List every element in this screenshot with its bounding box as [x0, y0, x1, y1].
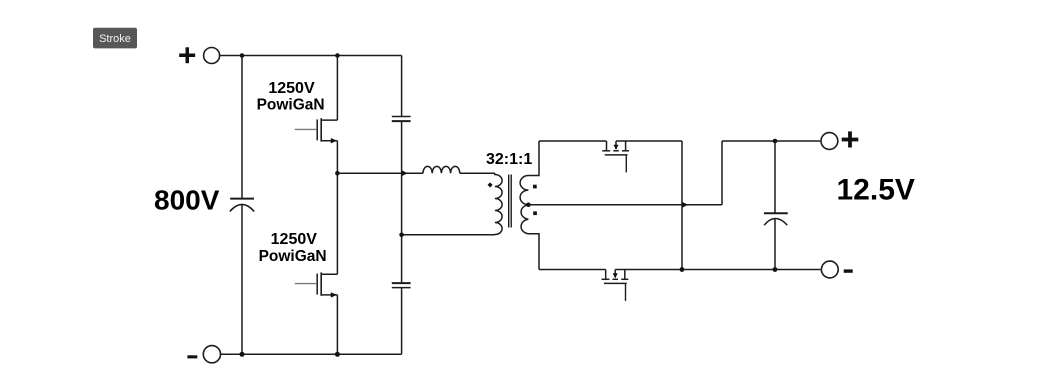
- transistor Q4 (sync rectifier, bottom): [602, 270, 629, 301]
- svg-text:1250V: 1250V: [268, 80, 315, 97]
- node: half-bridge midpoint: [335, 171, 340, 176]
- node: rectifier leg / bottom rail junction: [680, 267, 685, 272]
- node: output cap / bottom rail junction: [773, 267, 778, 272]
- svg-text:Stroke: Stroke: [99, 33, 131, 45]
- wire secondary top rail (right of Q3): [616, 140, 682, 142]
- transformer T1 primary phase dot: [488, 182, 493, 187]
- node: top rail / Q1 drain junction: [335, 53, 340, 58]
- node: top rail / left branch junction: [240, 53, 245, 58]
- wire secondary bottom rail (left of Q4): [539, 269, 606, 271]
- wire output top rail: [722, 140, 820, 142]
- wire left vertical upper (to C-in): [241, 56, 243, 199]
- transformer T1 secondary windings (center tapped): [520, 141, 539, 270]
- wire output cap upper lead: [774, 141, 776, 213]
- arrow at rectifier-leg crossing: [682, 202, 688, 208]
- input - terminal circle: [203, 346, 220, 363]
- node: bottom rail / left branch junction: [240, 352, 245, 357]
- transformer T1 primary winding: [495, 173, 502, 235]
- wire Q1 drain to top rail: [336, 56, 338, 121]
- wire primary bottom return to divider midpoint: [402, 234, 495, 236]
- transistor Q2 (GaN FET, low side): [295, 272, 338, 297]
- arrow at divider crossing (current direction): [402, 170, 408, 176]
- wire right divider branch: top rail to C1: [401, 56, 403, 117]
- node: bottom rail / Q2 source junction: [335, 352, 340, 357]
- svg-text:12.5V: 12.5V: [837, 174, 915, 207]
- transformer T1 core: [509, 175, 512, 228]
- svg-text:PowiGaN: PowiGaN: [257, 97, 325, 114]
- wire divider bottom: C2 to bottom rail: [401, 288, 403, 354]
- capacitor C1 (divider top): [392, 117, 411, 122]
- node: output cap / top rail junction: [773, 139, 778, 144]
- transformer T1 secondary phase dot (top): [533, 185, 537, 189]
- svg-text:1250V: 1250V: [271, 231, 318, 248]
- wire center tap riser: [721, 141, 723, 205]
- wire inductor to transformer primary: [460, 172, 495, 174]
- wire bottom rail: [221, 353, 402, 355]
- input minus sign: [187, 355, 197, 358]
- input plus sign: [179, 47, 195, 63]
- output plus sign: [842, 131, 859, 147]
- UI tooltip chip "Stroke": [93, 28, 137, 49]
- capacitor C2 (divider bottom): [392, 283, 411, 288]
- wire center tap to output: [528, 204, 722, 206]
- wire divider mid vertical C1 to C2: [401, 122, 403, 283]
- svg-text:800V: 800V: [154, 185, 220, 216]
- transistor Q1 (GaN FET, high side): [295, 118, 338, 143]
- wire rectifier leg vertical: [681, 141, 683, 270]
- input + terminal circle: [204, 48, 220, 64]
- transistor Q3 (sync rectifier, top): [602, 141, 629, 172]
- node: secondary center tap: [526, 203, 531, 208]
- wire half-bridge midpoint to inductor: [337, 172, 423, 174]
- capacitor C-in 800V (polarized): [230, 199, 254, 212]
- wire output cap lower lead: [774, 219, 776, 270]
- output - terminal circle: [821, 261, 838, 278]
- svg-text:32:1:1: 32:1:1: [486, 151, 532, 168]
- wire secondary bottom rail (right of Q4): [615, 269, 820, 271]
- wire Q1 source to Q2 drain (half-bridge leg): [336, 141, 338, 275]
- wire top rail: [220, 55, 402, 57]
- output minus sign: [844, 269, 853, 272]
- node: primary return / divider junction: [399, 233, 404, 238]
- svg-text:PowiGaN: PowiGaN: [259, 248, 327, 265]
- wire Q2 source to bottom rail: [336, 295, 338, 354]
- wire secondary top rail (left of Q3): [539, 140, 607, 142]
- output + terminal circle: [821, 133, 838, 150]
- capacitor C-out (polarized): [764, 213, 788, 225]
- inductor L1 (resonant): [423, 166, 460, 173]
- wire left vertical lower (C-in to bottom rail): [241, 205, 243, 355]
- transformer T1 secondary phase dot (bottom): [533, 211, 537, 215]
